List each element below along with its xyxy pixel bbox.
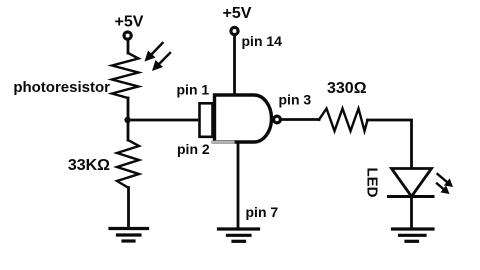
ground left [110,229,148,242]
ground right [393,229,434,241]
svg-text:330Ω: 330Ω [327,80,367,97]
photoresistor R1 [112,53,139,98]
terminal +5V left [124,32,131,39]
svg-text:+5V: +5V [115,14,144,31]
svg-text:+5V: +5V [223,5,252,22]
wire pin 14 to +5V [233,35,236,95]
svg-text:pin 7: pin 7 [246,204,279,220]
LED emission arrow 1 [438,174,454,187]
svg-text:pin 14: pin 14 [242,33,283,49]
svg-text:photoresistor: photoresistor [13,79,110,96]
wire node A down to 33K resistor [127,120,130,140]
wire +5V terminal to photoresistor [127,40,130,53]
wire photoresistor to node A [127,98,130,120]
photoresistor light arrow 2 [152,53,170,71]
LED D1 triangle [392,169,432,197]
svg-text:LED: LED [364,168,381,198]
nand gate U1 body [215,95,272,142]
svg-text:pin 1: pin 1 [177,82,210,98]
LED cathode bar [389,195,434,198]
photoresistor light arrow 1 [145,43,163,62]
wire 33K resistor to ground [127,188,130,229]
wire 330 resistor to LED [368,120,412,169]
terminal +5V center [231,27,238,34]
resistor 330Ω [319,109,368,132]
resistor 33KΩ [117,140,139,188]
wire bubble to 330 resistor [281,118,319,121]
ground center [219,229,259,241]
wire gate bottom to ground (pin 7) [237,142,240,228]
wire node A to NAND inputs [128,119,200,122]
output bubble [274,116,281,123]
input tie box pins 1-2 [200,103,213,137]
gray artifact on gate bottom edge [213,141,234,144]
svg-text:33KΩ: 33KΩ [68,157,110,174]
wire LED to ground [410,197,413,229]
svg-text:pin 2: pin 2 [177,141,210,157]
node A junction [124,117,130,123]
LED emission arrow 2 [437,184,450,195]
svg-text:pin 3: pin 3 [279,92,312,108]
